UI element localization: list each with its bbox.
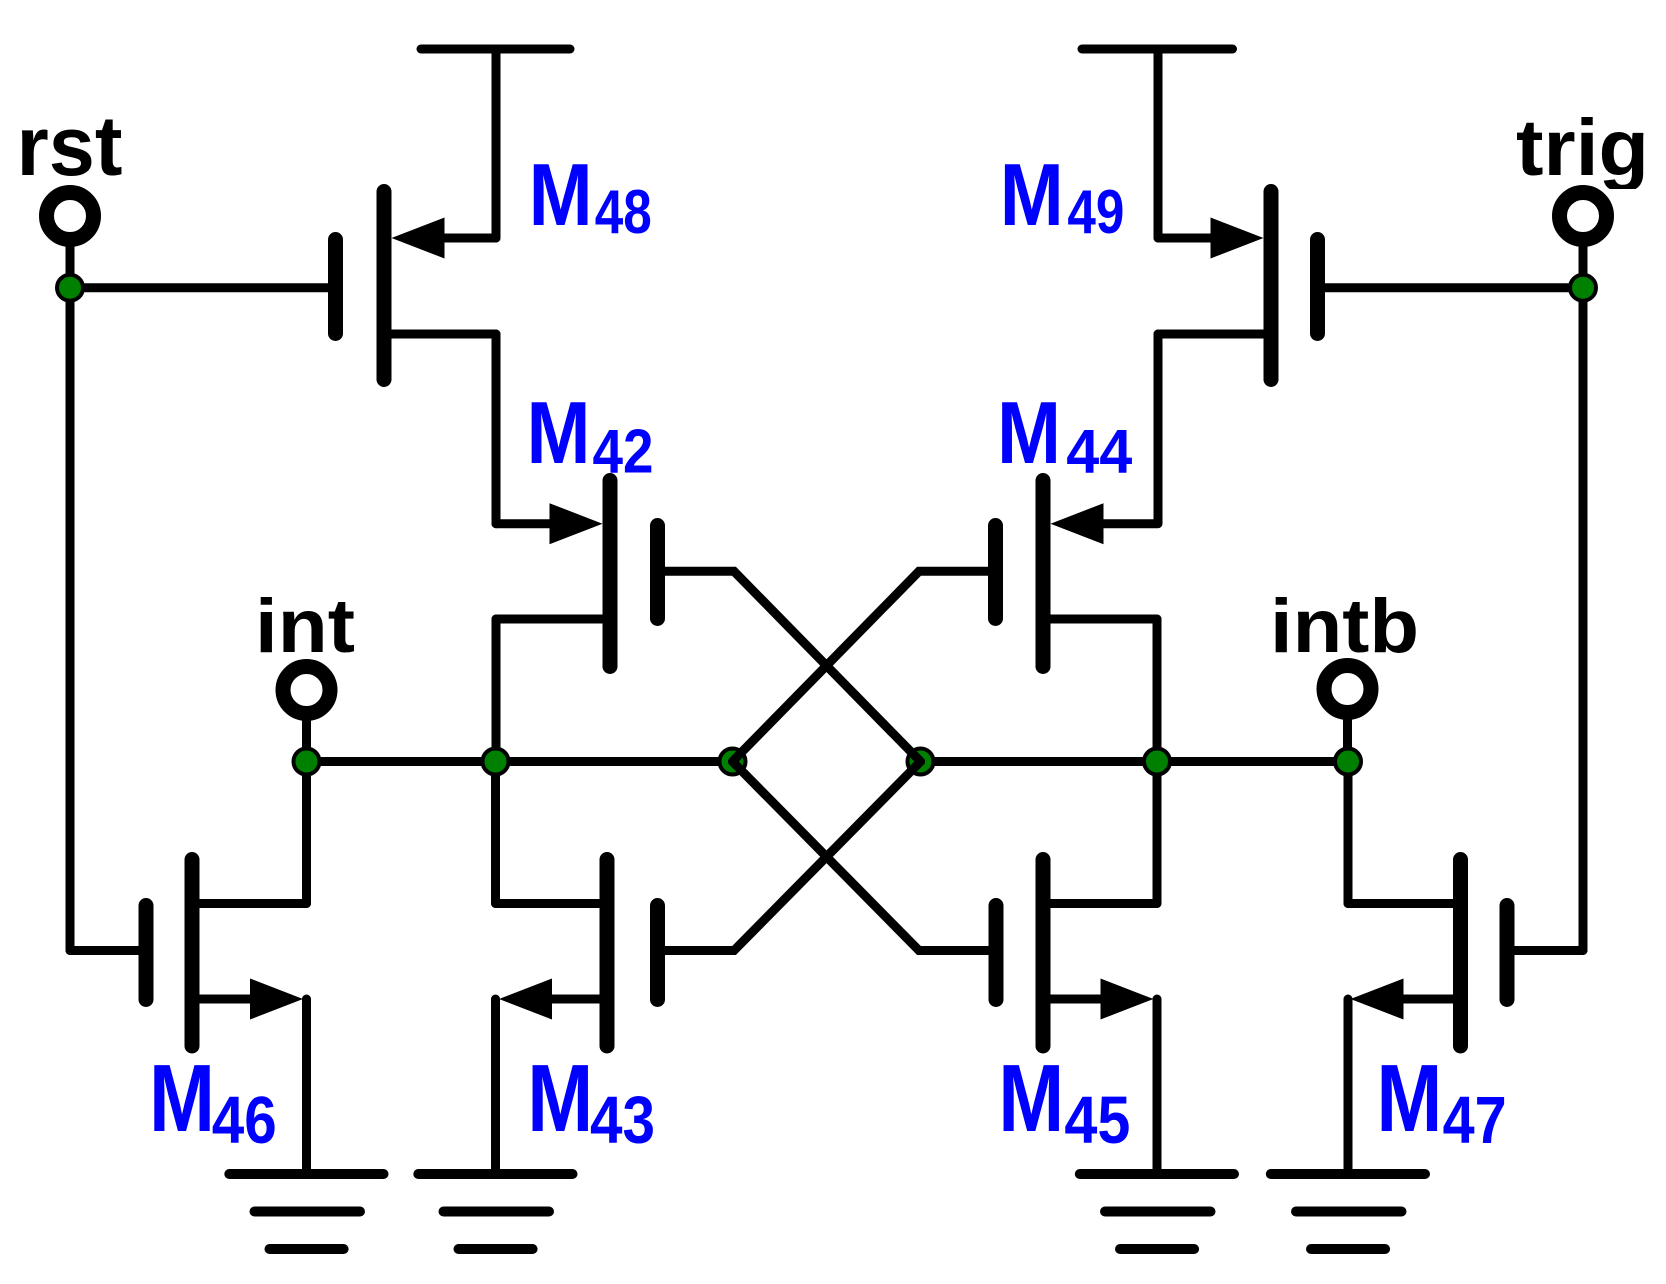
wire M45 drain up to intb rail xyxy=(1153,762,1162,904)
ground under M47 xyxy=(1271,1174,1425,1249)
transistor M44 xyxy=(996,481,1158,667)
wire rst node to M48 gate xyxy=(70,283,328,292)
svg-text:42: 42 xyxy=(593,418,654,487)
terminal rst xyxy=(47,193,94,240)
svg-text:M: M xyxy=(1376,1045,1442,1152)
wire cross-couple M44 gate to int node xyxy=(733,571,989,761)
transistor M46 xyxy=(70,860,307,1047)
wire trig vertical xyxy=(1579,288,1588,951)
node junction B (M44/M45) xyxy=(1144,749,1170,775)
wire VDD to M49 source xyxy=(1154,49,1163,238)
svg-text:int: int xyxy=(255,584,355,669)
node int rail xyxy=(307,757,733,766)
wire int terminal drop xyxy=(302,718,311,762)
wire M45 source to ground xyxy=(1153,999,1162,1170)
wire cross-couple M45 gate to int node xyxy=(733,762,989,951)
wire M46 drain up to int rail xyxy=(302,762,311,904)
svg-text:M: M xyxy=(997,383,1061,482)
terminal intb xyxy=(1324,666,1371,713)
node junction trig xyxy=(1570,275,1596,301)
terminal int xyxy=(283,667,330,714)
wire VDD to M48 source xyxy=(492,49,501,238)
svg-text:intb: intb xyxy=(1270,584,1419,669)
svg-text:49: 49 xyxy=(1067,178,1124,247)
wire M42 source to int rail xyxy=(492,619,501,762)
svg-text:trig: trig xyxy=(1516,103,1649,192)
svg-text:43: 43 xyxy=(590,1083,655,1158)
ground under M43 xyxy=(418,1174,572,1249)
terminal trig xyxy=(1560,193,1607,240)
svg-text:46: 46 xyxy=(212,1083,277,1158)
svg-text:44: 44 xyxy=(1066,418,1132,487)
svg-text:M: M xyxy=(1000,145,1064,244)
svg-text:M: M xyxy=(527,1045,593,1152)
svg-text:45: 45 xyxy=(1064,1083,1130,1158)
node junction int-cross xyxy=(720,749,746,775)
power rail stub over M49 xyxy=(1082,45,1233,54)
wire cross-couple M42 gate to intb node xyxy=(665,571,921,761)
wire M49 drain down to M44 xyxy=(1154,334,1163,524)
wire M48 drain down to M42 xyxy=(492,334,501,524)
wire M47 source to ground xyxy=(1344,999,1353,1170)
node junction intb-cross xyxy=(908,749,934,775)
svg-text:M: M xyxy=(529,145,593,244)
svg-text:48: 48 xyxy=(595,178,652,247)
svg-text:47: 47 xyxy=(1443,1083,1507,1158)
node junction int xyxy=(294,749,320,775)
wire M49 gate to trig node xyxy=(1325,283,1583,292)
wire M47 drain up to intb rail xyxy=(1344,762,1353,904)
transistor M42 xyxy=(496,481,658,667)
power rail stub over M48 xyxy=(421,45,570,54)
node junction A (M42/M43) xyxy=(483,749,509,775)
node intb rail xyxy=(921,757,1349,766)
wire M46 source to ground xyxy=(302,999,311,1170)
transistor M47 xyxy=(1348,860,1583,1047)
svg-text:rst: rst xyxy=(17,99,123,193)
transistor M48 xyxy=(336,192,497,380)
wire trig terminal drop xyxy=(1579,245,1588,288)
node junction rst xyxy=(57,275,83,301)
svg-text:M: M xyxy=(527,383,591,482)
node junction intb xyxy=(1335,749,1361,775)
svg-text:M: M xyxy=(149,1045,215,1152)
ground under M45 xyxy=(1080,1174,1234,1249)
transistor M49 xyxy=(1158,192,1318,380)
wire M43 drain up to int rail xyxy=(491,762,500,904)
wire M44 source to intb rail xyxy=(1153,619,1162,762)
wire M43 source to ground xyxy=(491,999,500,1170)
transistor M43 xyxy=(496,860,658,1047)
wire intb terminal drop xyxy=(1343,717,1352,762)
wire rst vertical xyxy=(66,288,75,951)
ground under M46 xyxy=(229,1174,383,1249)
transistor M45 xyxy=(996,860,1157,1047)
svg-text:M: M xyxy=(998,1045,1064,1152)
wire cross-couple M43 gate to intb node xyxy=(665,762,921,951)
wire rst terminal drop xyxy=(66,245,75,288)
